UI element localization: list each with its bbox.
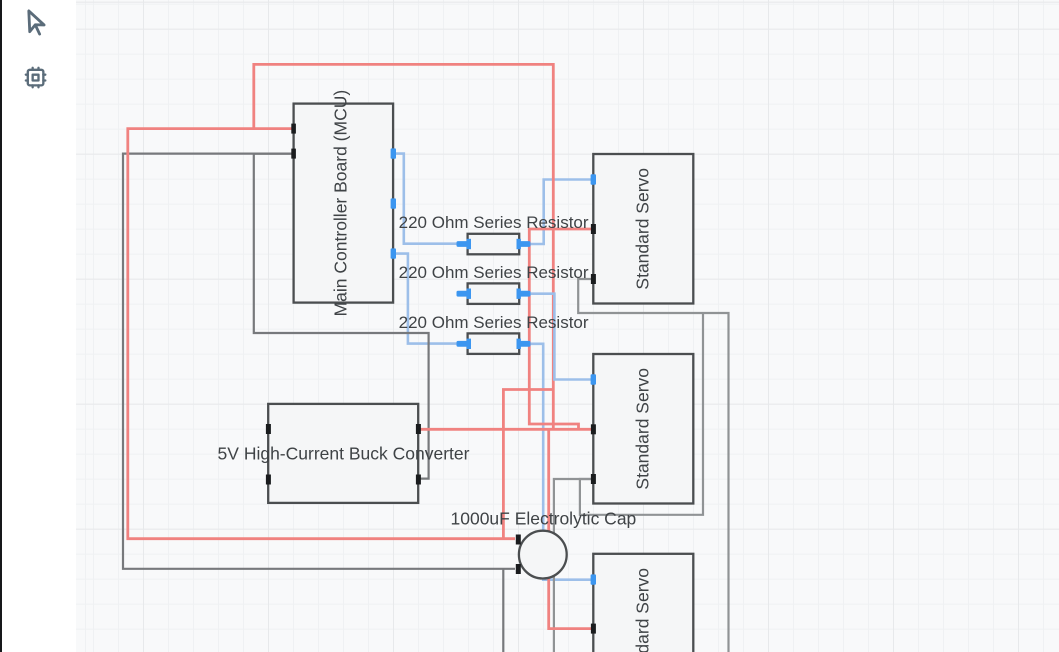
toolbar cursor icon — [22, 11, 47, 36]
resistor R3 pin right — [517, 339, 521, 349]
svg-text:Standard Servo: Standard Servo — [633, 568, 653, 652]
wire servo U2 GND left drop — [554, 479, 591, 652]
wire servo U1 power riser — [529, 229, 591, 429]
MCU U4 body — [294, 104, 394, 303]
servo U3 body — [593, 554, 693, 652]
svg-text:Main Controller Board (MCU): Main Controller Board (MCU) — [331, 90, 351, 317]
MCU pin 5V — [291, 124, 296, 134]
buck pin OUT- — [416, 475, 421, 485]
servo U3 pin SIG — [591, 574, 596, 584]
wire servo U1 GND down right side — [578, 279, 728, 652]
servo U2 pin VCC — [591, 424, 596, 434]
capacitor C1 pin - — [516, 564, 521, 574]
wire resistor R3 right to servo U3 signal — [529, 344, 591, 580]
wire MCU 5V to left rail to capacitor C1 positive — [128, 129, 515, 539]
servo U2 pin GND — [591, 474, 596, 484]
capacitor C1 body — [519, 531, 567, 579]
svg-text:5V High-Current Buck Converter: 5V High-Current Buck Converter — [218, 444, 470, 464]
resistor R3 body — [468, 333, 520, 354]
wire 5V jog to capacitor rail — [503, 390, 553, 539]
resistor R2 pin left — [467, 289, 471, 299]
servo U1 body — [593, 154, 693, 304]
svg-text:Standard Servo: Standard Servo — [633, 368, 653, 490]
servo U1 pin GND — [591, 274, 596, 284]
servo U1 pin SIG — [591, 174, 596, 184]
resistor R1 body — [468, 234, 520, 255]
wire servo U2 GND to right riser junction — [580, 313, 703, 515]
wire MCU pin S3 to resistor R3 left — [396, 254, 458, 344]
svg-text:220 Ohm Series Resistor: 220 Ohm Series Resistor — [399, 263, 589, 282]
buck pin IN+ — [266, 424, 271, 434]
servo U2 body — [593, 354, 693, 504]
buck pin OUT+ — [416, 424, 421, 434]
servo U2 pin SIG — [591, 374, 596, 384]
servo U3 pin VCC — [591, 624, 596, 634]
wire resistor R1 right to servo U1 signal — [529, 180, 591, 245]
wire capacitor C1 negative rail drop — [502, 569, 504, 652]
svg-text:220 Ohm Series Resistor: 220 Ohm Series Resistor — [399, 313, 589, 332]
wire MCU pin S1 to resistor R1 left — [396, 154, 458, 244]
buck converter U5 body — [268, 404, 418, 503]
wire 5V drop to servo U3 power — [549, 429, 591, 628]
resistor R1 pin left — [467, 239, 471, 249]
buck pin IN- — [266, 475, 271, 485]
wire resistor R2 right to servo U2 signal — [529, 294, 591, 380]
wire MCU GND to left rail to capacitor C1 negative — [123, 154, 515, 569]
MCU pin S1 — [391, 148, 396, 158]
resistor R1 pin right — [517, 239, 521, 249]
svg-text:Standard Servo: Standard Servo — [633, 168, 653, 290]
svg-text:1000uF Electrolytic Cap: 1000uF Electrolytic Cap — [451, 508, 637, 528]
servo U1 pin VCC — [591, 224, 596, 234]
resistor R2 body — [468, 283, 520, 304]
wire buck converter output to servo U2 power — [420, 428, 592, 431]
svg-text:220 Ohm Series Resistor: 220 Ohm Series Resistor — [399, 213, 589, 232]
MCU pin S3 — [391, 248, 396, 258]
MCU pin S2 — [391, 198, 396, 208]
capacitor C1 pin + — [516, 535, 521, 545]
resistor R3 pin left — [467, 339, 471, 349]
toolbar chip icon — [26, 68, 45, 87]
wire MCU GND to buck converter right lower pin — [254, 154, 429, 479]
MCU pin GND — [291, 149, 296, 159]
wire top 5V rail from node A to servo column — [254, 64, 554, 429]
resistor R2 pin right — [517, 289, 521, 299]
